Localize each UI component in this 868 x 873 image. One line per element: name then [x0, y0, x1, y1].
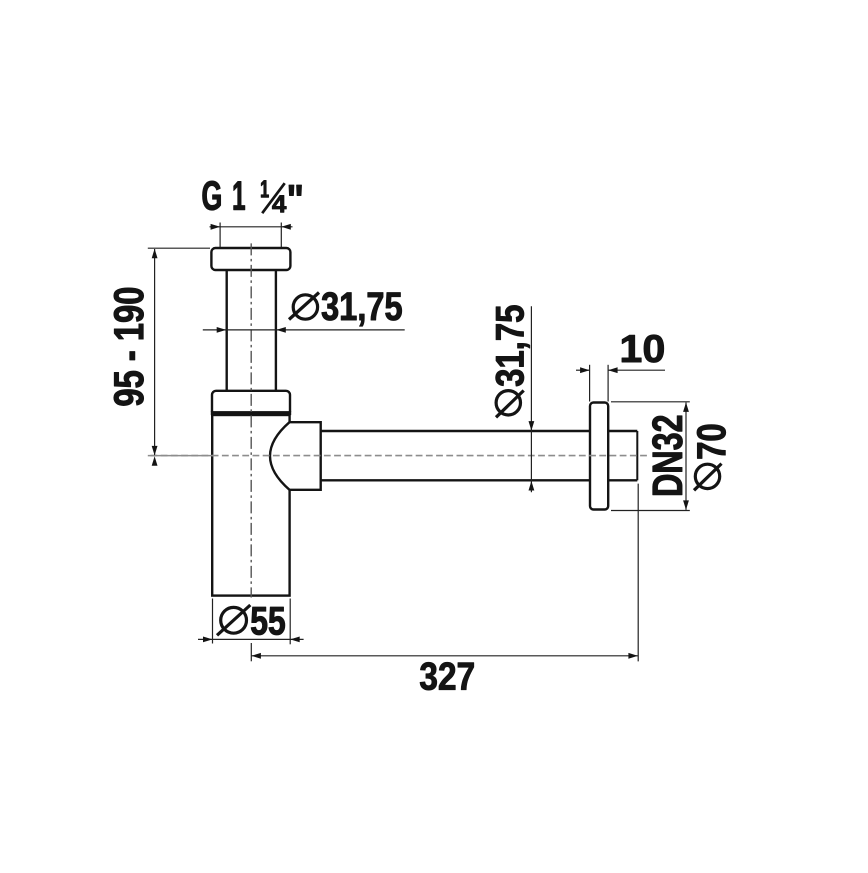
label G 1 1/4" — [203, 180, 302, 212]
label dia70: diameter symbol — [694, 464, 722, 491]
dim 10: extension lines — [589, 365, 591, 402]
label dia31,75 top: diameter symbol — [289, 293, 319, 320]
dim 95-190: bottom extension line — [148, 455, 213, 457]
pipe horizontal centerline — [151, 455, 650, 457]
dim 327: dimension line — [251, 655, 638, 657]
label DN32 — [652, 416, 682, 495]
dim 10: right tail — [608, 369, 665, 371]
trap cup body — [212, 415, 289, 596]
dim G: arrows — [211, 224, 221, 230]
label 55 — [251, 607, 285, 635]
dim dia31,75 rotated: dimension line — [530, 306, 532, 492]
dim 95-190: dimension line — [154, 249, 156, 455]
dim G: dimension line — [210, 226, 293, 228]
label dia31,75 rotated: diameter symbol — [496, 391, 524, 418]
label 327 — [420, 662, 474, 690]
label 70 — [697, 425, 726, 459]
dim dia70: arrows — [683, 402, 689, 412]
cup vertical centerline — [250, 243, 252, 597]
label 10 — [622, 335, 664, 363]
dim dia31,75 top: arrows — [217, 327, 227, 333]
gasket band — [211, 411, 291, 415]
dim dia70: dimension line — [685, 403, 687, 510]
dim dia31,75 top: leader line — [203, 329, 405, 331]
label 95 - 190 — [114, 288, 144, 406]
dim 327: arrows — [251, 653, 261, 659]
vertical inlet pipe walls — [227, 269, 276, 392]
dim 95-190: top extension line — [148, 247, 210, 249]
dim 10: arrows — [580, 367, 590, 373]
dim 327: left extension (cup axis) — [250, 643, 252, 661]
dim G: extension lines — [219, 223, 221, 248]
horizontal outlet pipe walls — [321, 431, 638, 480]
dim 327: right extension (pipe end) — [637, 484, 639, 662]
label 31,75 rotated — [496, 306, 530, 387]
dim dia31,75 rotated: arrows — [529, 421, 535, 431]
label dia55: diameter symbol — [217, 605, 250, 635]
dim 10: left tail — [576, 369, 590, 371]
wall flange — [590, 403, 608, 510]
dim dia55: extension lines — [212, 599, 214, 644]
dim dia55: dimension line — [198, 638, 304, 640]
dim dia55: arrows — [203, 637, 213, 643]
dim 95-190: top arrow — [152, 249, 158, 259]
dim dia70: extension lines — [611, 401, 690, 403]
dim 95-190: bottom hourglass arrows — [152, 446, 158, 456]
compression nut — [212, 391, 290, 415]
elbow joint — [270, 422, 321, 490]
top flange — [211, 248, 290, 270]
label 31,75 top — [322, 292, 402, 326]
